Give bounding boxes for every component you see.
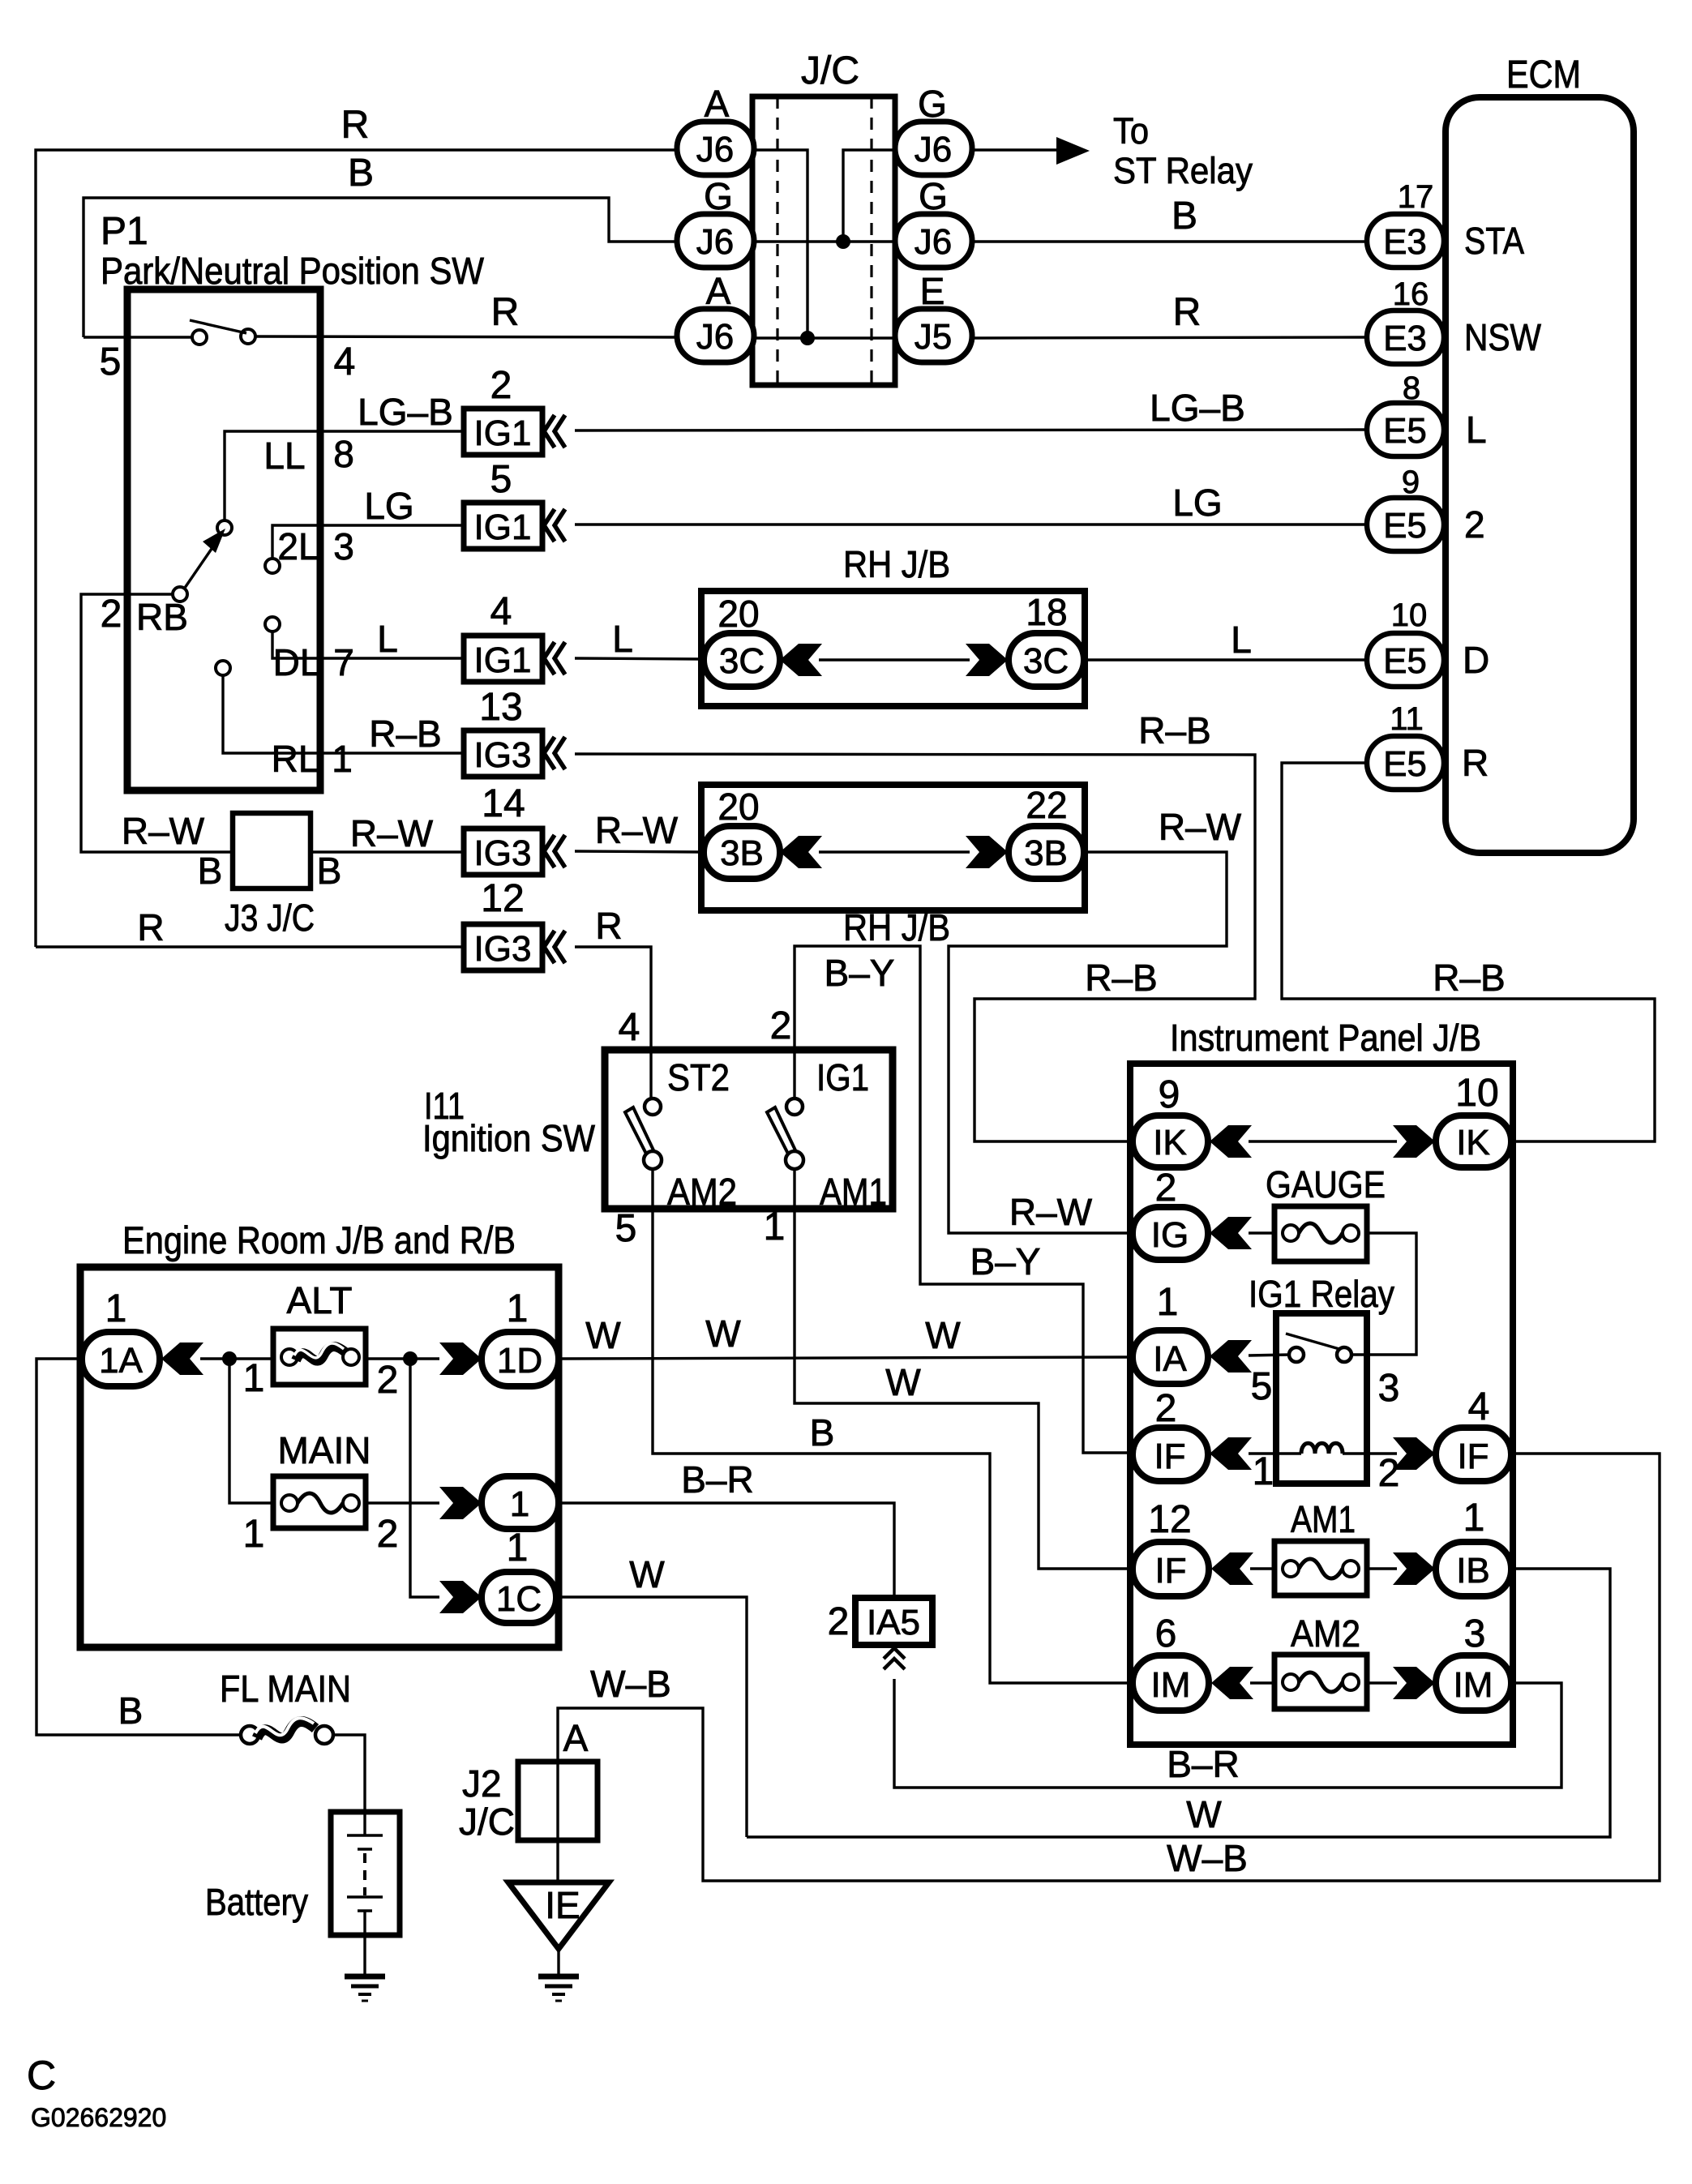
arrow into 1A [161, 1343, 203, 1375]
svg-text:E5: E5 [1383, 506, 1427, 546]
svg-text:IG: IG [1151, 1215, 1189, 1255]
ignition switch I11 box [605, 1050, 893, 1209]
svg-text:IA5: IA5 [867, 1603, 920, 1642]
wire dot2 down to 1C [410, 1359, 439, 1597]
connector IA pin 1 [1133, 1330, 1208, 1384]
svg-text:R–B: R–B [1138, 709, 1210, 752]
connector J5 (right bottom) [895, 309, 972, 362]
svg-text:L: L [1466, 409, 1487, 451]
arrow into IK 10 [1393, 1125, 1435, 1158]
svg-text:9: 9 [1159, 1073, 1180, 1116]
svg-text:W–B: W–B [1167, 1837, 1248, 1879]
connector 3B left [704, 826, 780, 879]
svg-text:LL: LL [263, 435, 305, 477]
connector 3C right [1009, 633, 1084, 687]
svg-text:4: 4 [334, 340, 356, 383]
LL contact circle [217, 520, 232, 535]
svg-text:IA: IA [1153, 1339, 1187, 1379]
connector E3 pin 17 [1367, 214, 1444, 268]
svg-text:4: 4 [619, 1006, 640, 1049]
AM1 fuse symbol [1283, 1561, 1299, 1577]
svg-text:R–B: R–B [1433, 957, 1505, 999]
svg-text:20: 20 [717, 786, 759, 828]
svg-text:7: 7 [333, 641, 354, 683]
svg-text:5: 5 [100, 340, 122, 383]
svg-text:W–B: W–B [590, 1663, 671, 1705]
connector E5 pin 10 [1367, 633, 1444, 687]
double chevron IG1-4 [544, 642, 565, 674]
IG1 contact circle [786, 1098, 803, 1115]
connector IM pin 3 [1436, 1655, 1511, 1711]
arrow into 3C right [966, 644, 1008, 676]
IG1-AM1 switch blade [767, 1107, 797, 1157]
RL contact circle [216, 661, 230, 675]
svg-text:E5: E5 [1383, 744, 1427, 784]
switch contact circle right (pin4) [241, 329, 255, 344]
svg-text:14: 14 [482, 782, 525, 825]
wire R-W J3 to IG3-14 [311, 850, 464, 853]
svg-text:J6: J6 [696, 130, 734, 169]
wire bottom row A-E through J/C [752, 336, 895, 339]
svg-text:IG3: IG3 [474, 735, 532, 775]
junction dot ALT pin2 [403, 1351, 418, 1366]
connector 1 [482, 1476, 559, 1529]
RL stub wire pin 1 [223, 675, 464, 753]
svg-text:2: 2 [770, 1004, 792, 1047]
svg-text:LG: LG [1172, 482, 1222, 524]
connector IF pin 12 [1133, 1542, 1209, 1596]
svg-text:Park/Neutral Position SW: Park/Neutral Position SW [101, 250, 485, 292]
svg-text:W: W [1186, 1793, 1222, 1835]
wire arrow to AM2 fuse [1250, 1681, 1274, 1684]
wire W-B from IF 4 to J2 J/C [558, 1454, 1660, 1881]
svg-text:2: 2 [1464, 503, 1485, 546]
svg-text:16: 16 [1393, 276, 1429, 312]
connector IG pin 2 [1133, 1207, 1208, 1260]
battery wire to ground [363, 1911, 366, 1975]
wire through J2 box [556, 1762, 559, 1840]
svg-text:W: W [585, 1314, 621, 1356]
svg-text:AM1: AM1 [820, 1171, 887, 1213]
svg-text:4: 4 [490, 590, 512, 633]
svg-text:R–W: R–W [1009, 1191, 1093, 1233]
wire FL MAIN to battery [333, 1735, 365, 1835]
wire LG to ECM E5 9 [575, 523, 1367, 525]
2L stub wire pin 3 [272, 525, 464, 559]
svg-text:L: L [612, 618, 633, 660]
svg-text:LG–B: LG–B [1150, 387, 1245, 429]
svg-text:GAUGE: GAUGE [1266, 1163, 1386, 1205]
svg-text:DL: DL [273, 641, 321, 683]
connector IG1 pin 2 [464, 409, 542, 455]
svg-text:J3 J/C: J3 J/C [225, 897, 315, 939]
svg-text:5: 5 [1251, 1365, 1273, 1408]
MAIN fuse symbol [281, 1495, 298, 1511]
svg-text:12: 12 [481, 877, 524, 920]
svg-text:2: 2 [828, 1600, 850, 1643]
svg-text:P1: P1 [101, 210, 148, 253]
connector 1C [482, 1572, 556, 1623]
double chevron IG1-2 [544, 415, 565, 448]
svg-text:J2: J2 [462, 1762, 502, 1805]
svg-text:IG1 Relay: IG1 Relay [1249, 1273, 1394, 1315]
wire G internal: right-top J6 to middle row [843, 150, 895, 242]
svg-text:1: 1 [243, 1357, 265, 1400]
double chevron IG3-14 [544, 835, 565, 867]
arrow into IF 4 [1393, 1437, 1435, 1470]
connector IG3 pin 13 [464, 730, 542, 777]
svg-text:E: E [920, 270, 945, 312]
svg-text:IF: IF [1154, 1437, 1185, 1476]
svg-text:MAIN: MAIN [278, 1429, 371, 1471]
svg-text:R: R [1462, 742, 1489, 784]
svg-text:B–Y: B–Y [970, 1240, 1041, 1283]
svg-text:1: 1 [1463, 1497, 1485, 1540]
svg-text:22: 22 [1026, 784, 1067, 826]
svg-text:A: A [705, 83, 730, 125]
wire R-W from IG3-14 to 3B left [575, 851, 704, 852]
arrow into IM 6 [1211, 1667, 1253, 1699]
ground IE [538, 1976, 579, 2001]
J/C internal dashed line left [776, 96, 778, 385]
svg-text:AM2: AM2 [667, 1171, 737, 1213]
svg-text:2: 2 [1378, 1452, 1400, 1495]
svg-text:J6: J6 [915, 130, 952, 169]
svg-text:1: 1 [764, 1205, 786, 1248]
wire R-W from 3B right to IG oval [949, 852, 1227, 1233]
wire J2 to IE triangle [556, 1840, 559, 1884]
AM2 fuse symbol [1283, 1674, 1299, 1690]
arrow into IM 3 [1393, 1667, 1435, 1699]
wire B from AM2 pin5 down to IM 6 [653, 1169, 1133, 1683]
wire relay coil to IF 4 [1343, 1452, 1397, 1454]
svg-text:5: 5 [490, 458, 512, 501]
J/C internal dashed line right [870, 96, 872, 385]
wire GAUGE fuse to relay contact 3 [1351, 1233, 1416, 1355]
connector IG3 pin 14 [464, 829, 542, 875]
svg-text:A: A [706, 270, 731, 312]
svg-text:IG1: IG1 [474, 640, 532, 680]
LL contact stub wire pin 8 [225, 431, 464, 520]
svg-text:11: 11 [1390, 701, 1424, 737]
arrow into IK 9 [1210, 1125, 1252, 1158]
svg-text:2: 2 [1155, 1167, 1177, 1210]
svg-text:L: L [377, 618, 398, 660]
connector IA5 box [855, 1598, 932, 1645]
svg-text:B: B [118, 1689, 143, 1732]
battery plate short top [358, 1848, 372, 1850]
arrow into IG [1210, 1217, 1252, 1249]
relay coil [1301, 1443, 1343, 1454]
svg-text:R–W: R–W [1159, 806, 1242, 848]
svg-text:FL MAIN: FL MAIN [220, 1668, 351, 1710]
AM1 contact circle [786, 1151, 803, 1169]
Instrument Panel J/B box [1130, 1064, 1513, 1745]
svg-text:W: W [629, 1553, 665, 1595]
Engine Room J/B box [80, 1267, 559, 1647]
connector J6 (left bottom) [677, 309, 754, 362]
connector E3 pin 16 [1367, 310, 1444, 364]
svg-text:STA: STA [1464, 220, 1524, 262]
svg-text:1A: 1A [99, 1341, 143, 1381]
wire R top: J6 A to far left [36, 150, 678, 947]
GAUGE fuse box [1274, 1206, 1367, 1261]
arrow into 3C left [780, 644, 822, 676]
svg-text:ST2: ST2 [667, 1056, 730, 1098]
wire R from top-left J6 into J/C, down to bottom row [752, 150, 807, 338]
wire between IK ovals [1249, 1140, 1397, 1142]
svg-text:1: 1 [507, 1287, 529, 1330]
svg-text:G: G [704, 175, 733, 217]
wire W from AM1 pin1 down to IF 12 [795, 1169, 1133, 1569]
svg-text:IG1: IG1 [474, 413, 532, 453]
RH J/B box 1 [701, 591, 1085, 706]
svg-text:IF: IF [1457, 1437, 1489, 1476]
svg-text:ST Relay: ST Relay [1113, 150, 1253, 191]
svg-text:IM: IM [1151, 1665, 1191, 1705]
svg-text:1C: 1C [496, 1579, 542, 1619]
svg-text:2: 2 [377, 1359, 399, 1402]
svg-text:18: 18 [1026, 591, 1067, 633]
svg-text:C: C [27, 2053, 56, 2098]
connector E5 pin 8 [1367, 403, 1444, 456]
wire to ST Relay with arrowhead [972, 148, 1058, 151]
svg-text:2: 2 [377, 1513, 399, 1556]
wire AM1 fuse to IB [1367, 1567, 1397, 1569]
wire B: STA row J6 right-mid to ECM E3 17 [972, 240, 1367, 242]
double chevron IG3-12 [544, 931, 565, 963]
relay switch blade [1286, 1334, 1339, 1349]
wire ALT to 1D [366, 1357, 439, 1360]
wire arrow to GAUGE fuse [1249, 1231, 1274, 1234]
svg-text:4: 4 [1468, 1385, 1490, 1428]
svg-text:L: L [1231, 619, 1252, 661]
junction dot node A row [800, 331, 815, 345]
svg-text:IG1: IG1 [474, 507, 532, 547]
svg-text:Ignition SW: Ignition SW [422, 1117, 596, 1159]
connector J6 (left top) [677, 122, 754, 175]
svg-text:J5: J5 [915, 317, 952, 357]
svg-text:2: 2 [490, 364, 512, 407]
rotor arrow RB to LL [185, 546, 213, 588]
svg-text:AM2: AM2 [1291, 1612, 1360, 1655]
ground battery [345, 1976, 385, 2001]
double chevron below IA5 pointing up [884, 1648, 905, 1669]
svg-text:To: To [1113, 110, 1149, 152]
relay contact circle 3 [1337, 1347, 1351, 1362]
svg-text:IG3: IG3 [474, 833, 532, 873]
ALT fusible link symbol [281, 1349, 298, 1365]
J/C junction connector box [752, 96, 895, 385]
svg-text:J6: J6 [696, 317, 734, 357]
svg-text:B: B [810, 1411, 835, 1454]
svg-text:A: A [563, 1717, 589, 1759]
wire pin 2 to left [81, 594, 233, 852]
FL MAIN fusible link symbol [241, 1726, 259, 1744]
2L contact circle [265, 559, 280, 573]
svg-text:Battery: Battery [205, 1881, 308, 1923]
arrow into 1D [439, 1343, 482, 1375]
svg-text:AM1: AM1 [1291, 1498, 1356, 1540]
svg-text:RB: RB [136, 596, 188, 638]
arrow into 1C [439, 1581, 482, 1613]
svg-text:5: 5 [615, 1207, 637, 1250]
RH J/B box 2 [701, 785, 1085, 910]
wire between 3B arrows [819, 850, 970, 853]
wire R: NSW row J5 to ECM E3 16 [972, 337, 1367, 338]
svg-text:R: R [595, 905, 622, 947]
arrow into IA [1210, 1340, 1252, 1372]
svg-text:NSW: NSW [1464, 316, 1542, 358]
wire B: J6 G left to P1 pin 5 [84, 198, 678, 337]
svg-text:IG3: IG3 [474, 929, 532, 969]
connector IF pin 2 [1133, 1428, 1208, 1481]
svg-text:1: 1 [105, 1287, 127, 1330]
GAUGE fuse symbol [1283, 1225, 1299, 1241]
connector J6 (left middle) [677, 214, 754, 268]
svg-text:W: W [885, 1361, 921, 1403]
svg-text:IB: IB [1456, 1551, 1490, 1591]
wire LG-B to ECM E5 8 [575, 430, 1367, 430]
ground connector IE triangle [508, 1882, 609, 1949]
connector IM pin 6 [1133, 1655, 1209, 1711]
svg-text:B: B [317, 850, 342, 892]
AM2 contact circle [644, 1151, 662, 1169]
svg-text:E5: E5 [1383, 411, 1427, 451]
pin 5 wire into switch [84, 336, 193, 338]
svg-text:R: R [1173, 291, 1202, 334]
junction J2 J/C box [518, 1762, 598, 1840]
wire arrow to relay contact 5 [1249, 1355, 1290, 1355]
battery P1 box [331, 1812, 400, 1935]
svg-text:B: B [348, 152, 374, 195]
battery plate short bottom [358, 1909, 372, 1912]
wire B-R from 1 to IA5 [559, 1503, 894, 1598]
svg-text:E5: E5 [1383, 641, 1427, 681]
svg-text:D: D [1463, 639, 1489, 681]
svg-text:W: W [925, 1314, 961, 1356]
arrow into IF 12 [1211, 1552, 1253, 1585]
arrow into 1 [439, 1487, 482, 1519]
svg-text:ECM: ECM [1506, 54, 1581, 96]
svg-text:10: 10 [1391, 597, 1428, 633]
wire 1A to ALT fuse [200, 1357, 273, 1360]
arrow into IB [1393, 1552, 1435, 1585]
svg-text:RH J/B: RH J/B [843, 906, 950, 949]
svg-text:LG–B: LG–B [358, 391, 453, 433]
wire B-R from IA5 to IM 3 [894, 1679, 1561, 1788]
svg-text:IF: IF [1154, 1551, 1186, 1591]
svg-text:6: 6 [1155, 1612, 1177, 1655]
svg-text:R–W: R–W [595, 809, 679, 851]
wire R from IG3-12 chevron to ignition ST2 pin 4 [575, 947, 651, 1100]
svg-text:3B: 3B [1024, 833, 1068, 873]
wire R far-left vertical to IG3-12 [36, 945, 464, 948]
connector IK pin 10 [1436, 1116, 1511, 1167]
IG1 Relay box [1276, 1313, 1367, 1484]
wire R-B from ECM E5 11 to IK 10 [1282, 763, 1655, 1141]
junction dot node G row [836, 234, 850, 249]
svg-text:1: 1 [510, 1484, 529, 1524]
svg-text:3C: 3C [719, 641, 765, 681]
MAIN fuse box [273, 1476, 366, 1528]
svg-text:J6: J6 [696, 222, 734, 262]
svg-text:Instrument Panel J/B: Instrument Panel J/B [1170, 1017, 1481, 1059]
wire L from 3C right to ECM E5 10 [1084, 658, 1367, 661]
connector 3C left [704, 633, 780, 687]
svg-text:3: 3 [1378, 1367, 1400, 1410]
junction J3 J/C box [233, 813, 311, 889]
svg-text:1: 1 [507, 1527, 529, 1569]
AM1 fuse box [1274, 1541, 1367, 1595]
P1 Park/Neutral Position SW box [127, 289, 320, 790]
battery dashed center link [363, 1853, 366, 1895]
relay contact circle 5 [1289, 1347, 1304, 1362]
wire B from 1A to FL MAIN [36, 1359, 241, 1735]
connector IK pin 9 [1133, 1116, 1208, 1167]
connector IG1 pin 5 [464, 503, 542, 549]
svg-text:1: 1 [1157, 1281, 1179, 1324]
arrow into 3B right [966, 836, 1008, 868]
svg-text:LG: LG [364, 485, 413, 527]
ALT fusible link box [273, 1329, 366, 1385]
arrow into 3B left [780, 836, 822, 868]
connector IG3 pin 12 [464, 924, 542, 970]
arrow into IF 2 [1210, 1437, 1252, 1470]
svg-text:3C: 3C [1023, 641, 1069, 681]
svg-text:RL: RL [272, 738, 319, 780]
svg-text:IE: IE [545, 1884, 580, 1926]
double chevron IG1-5 [544, 509, 565, 542]
svg-text:B: B [1172, 195, 1197, 238]
svg-text:2: 2 [1155, 1387, 1177, 1430]
connector IF pin 4 [1436, 1428, 1511, 1481]
svg-text:R: R [491, 291, 520, 334]
svg-text:3: 3 [333, 525, 354, 567]
wire between 3C arrows [819, 658, 970, 661]
DL stub wire pin 7 [272, 632, 464, 658]
svg-text:R–B: R–B [1085, 957, 1157, 999]
wire middle row G through J/C [752, 240, 895, 242]
wire arrow to relay coil [1249, 1452, 1301, 1454]
AM2 fuse box [1274, 1655, 1367, 1709]
svg-text:B–R: B–R [1167, 1743, 1239, 1785]
svg-text:12: 12 [1148, 1498, 1191, 1541]
svg-text:10: 10 [1455, 1072, 1498, 1115]
ECM box [1446, 97, 1634, 853]
svg-text:R: R [341, 104, 370, 147]
wire W from 1C down to W bus [556, 1597, 747, 1837]
svg-text:J/C: J/C [459, 1801, 515, 1843]
svg-text:E3: E3 [1383, 222, 1427, 262]
RB contact circle pin 2 [173, 587, 187, 602]
DL contact circle [265, 617, 280, 632]
svg-text:1: 1 [243, 1513, 265, 1556]
wire W from IB to 1C bus [747, 1569, 1610, 1837]
svg-text:3: 3 [1464, 1612, 1486, 1655]
wire MAIN to 1 connector [366, 1501, 439, 1504]
svg-text:1: 1 [1253, 1450, 1274, 1493]
svg-text:2L: 2L [277, 525, 319, 567]
connector E5 pin 11 [1367, 736, 1444, 790]
svg-text:8: 8 [333, 433, 354, 475]
connector IB pin 1 [1436, 1542, 1511, 1596]
wire IE to ground [557, 1949, 559, 1975]
svg-text:R: R [137, 906, 164, 949]
connector IG1 pin 4 [464, 636, 542, 682]
svg-text:B–Y: B–Y [825, 952, 895, 994]
wire W from 1D to IA [559, 1357, 1133, 1359]
